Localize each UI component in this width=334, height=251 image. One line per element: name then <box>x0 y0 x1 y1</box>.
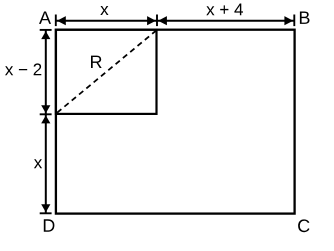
label B <box>300 12 310 24</box>
outer rectangle ABCD <box>56 30 295 214</box>
left dimension tick at D <box>40 212 52 214</box>
inner rectangle (x wide, x-2 tall) <box>56 30 157 114</box>
label R <box>91 56 102 68</box>
top dimension tick at A <box>55 15 57 27</box>
arrowhead pointing left at middle tick (x+4 span) <box>158 16 167 25</box>
label x - 2 <box>5 63 41 75</box>
top dimension tick at B <box>293 15 295 27</box>
top dimension middle tick <box>156 15 158 27</box>
label x (top dimension) <box>100 6 108 15</box>
label A <box>39 12 51 24</box>
left dimension tick at A <box>40 29 52 31</box>
arrowhead pointing up at middle tick (x span) <box>41 115 50 123</box>
arrowhead pointing right at B <box>284 16 293 25</box>
left dimension line <box>45 30 47 213</box>
arrowhead pointing up below A (x-2 span) <box>41 31 50 39</box>
arrowhead pointing down at middle tick (x-2 span) <box>41 105 50 113</box>
dashed diagonal R <box>57 30 156 112</box>
label D <box>44 219 55 231</box>
arrowhead pointing down at D (x span) <box>41 204 50 212</box>
label C <box>298 219 309 232</box>
top dimension line <box>56 20 294 22</box>
label x + 4 <box>206 4 243 16</box>
arrowhead pointing left at A <box>57 16 66 25</box>
label x (left dimension) <box>34 159 42 168</box>
arrowhead pointing right at middle tick (x span) <box>147 16 156 25</box>
left dimension middle tick <box>40 113 52 115</box>
